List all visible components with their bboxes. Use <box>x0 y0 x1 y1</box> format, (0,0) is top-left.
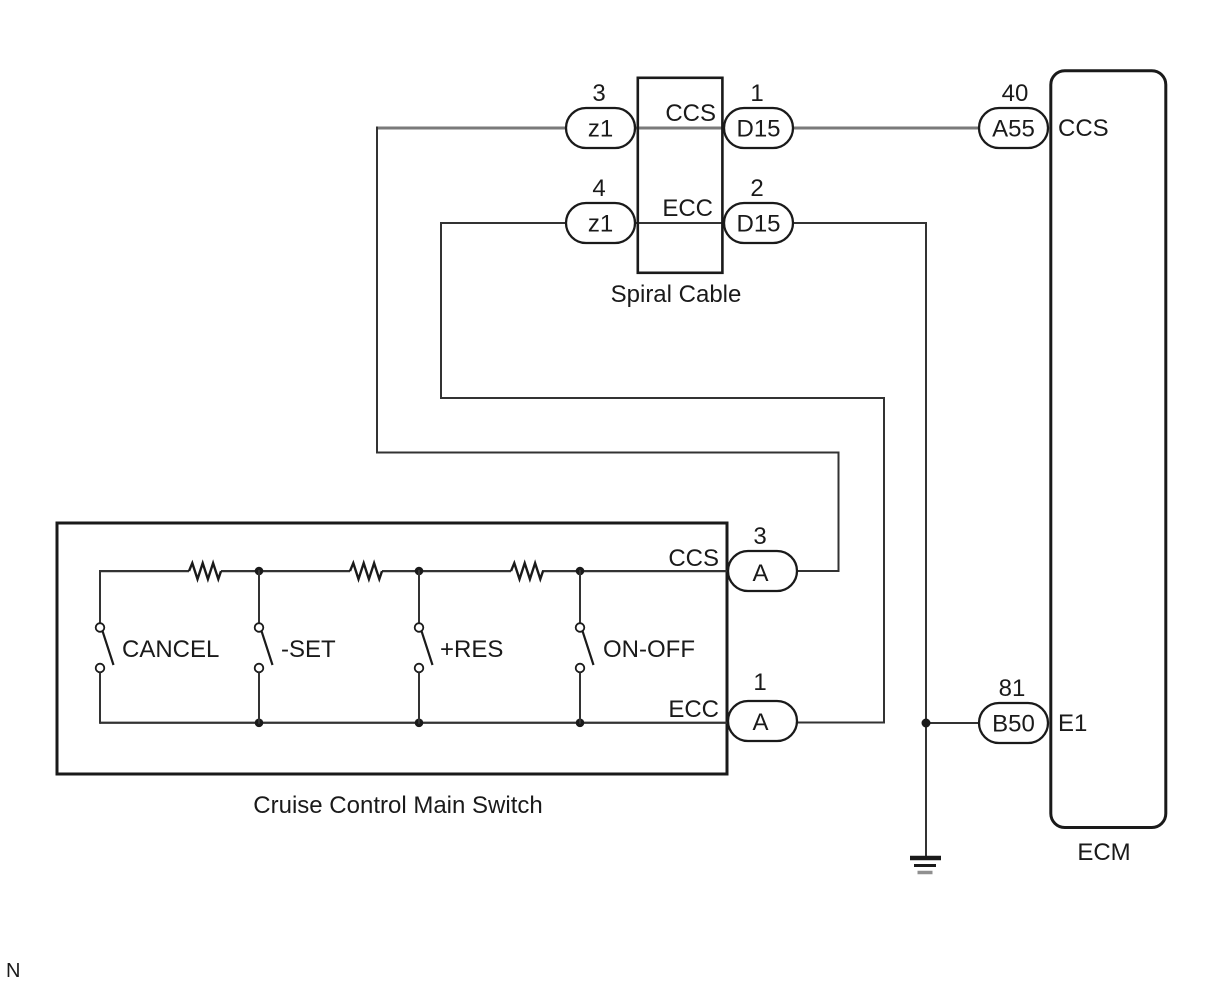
resistor R1 <box>189 563 221 579</box>
switch -SET <box>255 570 273 724</box>
svg-text:A: A <box>752 560 768 587</box>
svg-text:z1: z1 <box>588 116 613 143</box>
svg-text:ECM: ECM <box>1077 839 1130 866</box>
wire ECC: vertical at x=884 down to switch ECC output <box>883 397 885 724</box>
switch CANCEL <box>96 570 114 724</box>
svg-text:3: 3 <box>592 80 605 107</box>
junction dot bottom rail at -SET <box>255 719 264 728</box>
svg-text:40: 40 <box>1002 80 1029 107</box>
junction dot top rail at -SET <box>255 567 264 576</box>
svg-text:N: N <box>6 960 20 982</box>
connector A (CCS output of switch) <box>728 551 797 591</box>
junction dot bottom rail at +RES <box>415 719 424 728</box>
wire ground net: vertical at x=926 from y=223 down to ground <box>925 222 927 857</box>
connector z1 pin 3 <box>566 108 635 148</box>
svg-text:B50: B50 <box>992 711 1035 738</box>
svg-text:CCS: CCS <box>1058 115 1109 142</box>
svg-text:Spiral Cable: Spiral Cable <box>611 281 742 308</box>
wire CCS: horizontal at y=450 <box>376 452 840 454</box>
svg-text:E1: E1 <box>1058 710 1087 737</box>
wire: switch box top rail segments <box>100 570 189 572</box>
svg-text:-SET: -SET <box>281 636 336 663</box>
svg-text:2: 2 <box>750 175 763 202</box>
switch ON-OFF <box>576 570 594 724</box>
wire ECC: segment through spiral cable box <box>634 222 725 224</box>
svg-text:3: 3 <box>753 523 766 550</box>
svg-text:ON-OFF: ON-OFF <box>603 636 695 663</box>
svg-text:D15: D15 <box>736 116 780 143</box>
wire CCS: gray segment from D15 pin 1 to ECM A55 <box>792 127 980 130</box>
svg-text:81: 81 <box>999 675 1026 702</box>
junction dot top rail at ON-OFF <box>576 567 585 576</box>
svg-text:CANCEL: CANCEL <box>122 636 219 663</box>
svg-text:A: A <box>752 709 768 736</box>
wire: switch box bottom rail <box>100 722 729 724</box>
svg-text:1: 1 <box>753 669 766 696</box>
resistor R2 <box>350 563 382 579</box>
wire CCS: vertical at x=377 from top row down <box>376 127 378 454</box>
svg-text:Cruise Control Main Switch: Cruise Control Main Switch <box>253 792 542 819</box>
connector A55 pin 40 <box>979 108 1048 148</box>
switch +RES <box>415 570 433 724</box>
connector D15 pin 1 <box>724 108 793 148</box>
resistor R3 <box>511 563 543 579</box>
spiral cable box <box>638 78 723 273</box>
connector z1 pin 4 <box>566 203 635 243</box>
wire CCS: gray segment through spiral cable box from z1 to D15 <box>634 127 725 130</box>
cruise control main switch box <box>57 523 727 774</box>
ground symbol <box>910 858 941 873</box>
svg-text:A55: A55 <box>992 116 1035 143</box>
wire ECC: horizontal into A connector (ECC) <box>795 722 885 724</box>
junction dot bottom rail at ON-OFF <box>576 719 585 728</box>
svg-text:+RES: +RES <box>440 636 503 663</box>
junction dot at x=926 y=723 <box>922 719 931 728</box>
svg-text:D15: D15 <box>736 211 780 238</box>
wire ECC: horizontal at y=398 <box>440 397 885 399</box>
svg-text:ECC: ECC <box>668 696 719 723</box>
wire ECC: vertical at x=441 <box>440 222 442 399</box>
svg-text:CCS: CCS <box>668 545 719 572</box>
connector D15 pin 2 <box>724 203 793 243</box>
svg-text:4: 4 <box>592 175 605 202</box>
wire CCS: horizontal into A connector (CCS) <box>795 570 840 572</box>
wire CCS: vertical at x=839 down to switch output <box>838 452 840 572</box>
connector A (ECC output of switch) <box>728 701 797 741</box>
connector B50 pin 81 <box>979 703 1048 743</box>
svg-text:ECC: ECC <box>662 195 713 222</box>
junction dot top rail at +RES <box>415 567 424 576</box>
svg-text:CCS: CCS <box>665 100 716 127</box>
wire ECC: horizontal from left vertical to z1 pin 4 <box>440 222 567 224</box>
svg-text:1: 1 <box>750 80 763 107</box>
ECM box <box>1051 71 1166 828</box>
wire ground net: horizontal from junction to B50 <box>926 722 980 724</box>
svg-text:z1: z1 <box>588 211 613 238</box>
wire CCS: gray segment from left vertical to z1 pin 3 <box>376 127 567 130</box>
wire ground net: horizontal from D15 pin 2 to x=926 <box>792 222 927 224</box>
